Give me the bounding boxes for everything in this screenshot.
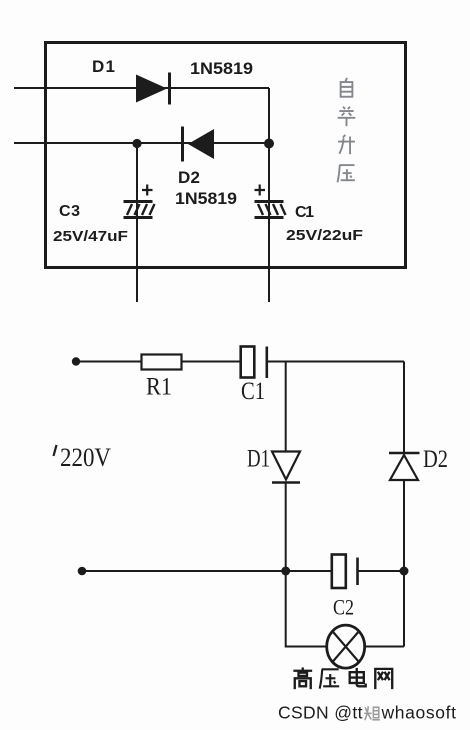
- svg-text:R1: R1: [146, 374, 172, 401]
- svg-text:C1: C1: [241, 378, 265, 405]
- svg-text:C3: C3: [59, 203, 80, 220]
- svg-text:220V: 220V: [60, 443, 111, 472]
- svg-text:D2: D2: [423, 446, 448, 473]
- svg-text:D2: D2: [178, 168, 200, 187]
- svg-text:1N5819: 1N5819: [175, 189, 237, 208]
- svg-text:C2: C2: [333, 595, 354, 620]
- svg-text:C1: C1: [295, 204, 314, 221]
- svg-text:D1: D1: [92, 57, 115, 76]
- svg-text:D1: D1: [247, 446, 270, 473]
- svg-text:25V/22uF: 25V/22uF: [286, 227, 363, 244]
- svg-text:1N5819: 1N5819: [190, 59, 253, 78]
- svg-text:whaosoft: whaosoft: [381, 703, 457, 723]
- svg-text:CSDN @tt: CSDN @tt: [278, 703, 363, 723]
- svg-text:25V/47uF: 25V/47uF: [53, 228, 128, 245]
